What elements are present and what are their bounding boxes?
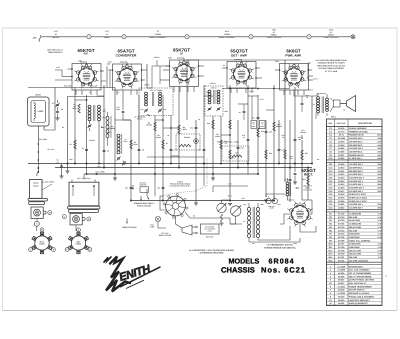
wire short links bbox=[155, 119, 163, 121]
wire bbox=[212, 116, 214, 174]
heater wires bbox=[213, 185, 248, 187]
tab B bbox=[82, 217, 85, 221]
pin dot tube5 bbox=[279, 69, 281, 71]
IF transformer T3 2nd IF bbox=[205, 86, 223, 116]
svg-text:INDICATED WITH AN AC-DC OR: INDICATED WITH AN AC-DC OR bbox=[317, 64, 346, 67]
wire bbox=[189, 36, 249, 38]
svg-text:POWER TRANSFORMER: POWER TRANSFORMER bbox=[349, 285, 373, 288]
wire down from bus4 bbox=[154, 174, 156, 196]
svg-text:20,000: 20,000 bbox=[132, 143, 137, 146]
svg-text:95-506: 95-506 bbox=[338, 275, 345, 278]
svg-text:49-247: 49-247 bbox=[338, 282, 345, 285]
capacitor C18 bbox=[247, 138, 250, 140]
capacitor C22 bbox=[289, 178, 292, 180]
wire link scr bbox=[204, 95, 213, 97]
svg-text:20%: 20% bbox=[377, 147, 381, 150]
svg-text:C23: C23 bbox=[157, 187, 160, 190]
svg-text:22-920: 22-920 bbox=[338, 200, 345, 203]
wire B+ line bbox=[301, 140, 303, 200]
svg-text:0.05 MFD 400 V: 0.05 MFD 400 V bbox=[349, 137, 364, 140]
svg-text:T4: T4 bbox=[313, 103, 315, 106]
ground mid 3 bbox=[228, 203, 232, 205]
svg-text:22-907: 22-907 bbox=[338, 154, 345, 157]
wire top bus to converter bbox=[28, 87, 115, 89]
RF coil core bbox=[93, 105, 95, 121]
svg-text:22-913: 22-913 bbox=[338, 176, 345, 179]
wire bus 3 bbox=[115, 173, 258, 175]
svg-text:22-917: 22-917 bbox=[338, 190, 345, 193]
wire v 295 ext2 bbox=[294, 176, 296, 183]
svg-text:MEG: MEG bbox=[73, 107, 78, 110]
svg-text:BLK-GRN: BLK-GRN bbox=[39, 138, 48, 141]
wire V1 plate bbox=[74, 88, 76, 164]
wire det plate link bbox=[238, 103, 248, 105]
wire 6K6 plate area bbox=[309, 75, 313, 77]
svg-text:PADDER 600 KC: PADDER 600 KC bbox=[349, 134, 365, 137]
junction dots bus 3 bbox=[114, 173, 116, 175]
trimmer C3 bbox=[88, 124, 91, 126]
pin dot tube3 bbox=[169, 65, 171, 67]
padder capacitor C9 bbox=[123, 162, 126, 164]
wire V1 screen bbox=[103, 85, 105, 168]
svg-text:CONV.: CONV. bbox=[39, 243, 45, 246]
wire bus AVC bbox=[55, 167, 312, 169]
svg-text:R.F.: R.F. bbox=[84, 53, 89, 56]
RF coil L3 secondary bbox=[98, 105, 101, 108]
svg-text:0.006 MFD 600 V: 0.006 MFD 600 V bbox=[349, 187, 365, 190]
junction B+ feed bbox=[311, 163, 313, 165]
wire speaker leads bbox=[330, 98, 334, 101]
tube V4 6SQ7GT det amp bbox=[234, 66, 250, 82]
junction bbox=[86, 99, 88, 101]
svg-text:DET · AMP: DET · AMP bbox=[231, 53, 247, 57]
wire converter plate bbox=[146, 64, 148, 88]
wire bbox=[178, 87, 180, 168]
Zenith logo flourish bbox=[104, 257, 111, 262]
wire osc grid bbox=[114, 88, 116, 175]
parts table frame bbox=[327, 119, 383, 306]
capacitor C6 bbox=[103, 149, 106, 151]
trimmer C7 bbox=[117, 157, 120, 159]
tube V2 socket box bbox=[113, 64, 142, 90]
svg-text:22-905: 22-905 bbox=[338, 147, 345, 150]
trimmer bracket B bbox=[70, 213, 82, 225]
capacitor C23 bbox=[162, 186, 165, 188]
svg-text:PHONO: PHONO bbox=[184, 136, 191, 139]
junction det row bbox=[229, 88, 231, 90]
wire rect left bbox=[280, 214, 288, 224]
tube V4 pin leads bbox=[230, 88, 232, 93]
svg-text:63-756: 63-756 bbox=[338, 239, 345, 242]
svg-text:49-248: 49-248 bbox=[338, 289, 345, 292]
svg-text:R13 VOL CONTROL ½ MEG: R13 VOL CONTROL ½ MEG bbox=[217, 140, 240, 143]
wire heater bus bbox=[147, 156, 204, 158]
svg-text:SWITCH: SWITCH bbox=[140, 184, 147, 187]
ground 295 bbox=[293, 181, 297, 183]
transformer T4 output bbox=[317, 97, 320, 99]
svg-text:¼ W: ¼ W bbox=[377, 246, 381, 249]
svg-text:5: 5 bbox=[308, 36, 309, 39]
svg-text:PHONO SOCKET: PHONO SOCKET bbox=[137, 204, 152, 207]
svg-text:FROM: FROM bbox=[224, 33, 230, 36]
resistor R8 bbox=[178, 125, 180, 134]
svg-text:TUNING RANGE 540-1620 KC.: TUNING RANGE 540-1620 KC. bbox=[264, 247, 296, 250]
oscillator coil L2 primary bbox=[106, 116, 109, 120]
wire bbox=[130, 120, 132, 201]
svg-text:500,000 OHM: 500,000 OHM bbox=[349, 253, 361, 256]
svg-text:COMMON RETURN TO POINTS: COMMON RETURN TO POINTS bbox=[317, 62, 345, 65]
wire v1 cap lead bbox=[80, 62, 87, 64]
wire det row bbox=[222, 88, 290, 90]
RF coil L3 primary bbox=[88, 105, 91, 108]
wire dial lamp lead bbox=[158, 222, 166, 228]
capacitor C29 bbox=[294, 172, 297, 174]
capacitor C14 bbox=[195, 126, 198, 128]
svg-text:PADDER 600 KC: PADDER 600 KC bbox=[349, 154, 365, 157]
svg-text:1: 1 bbox=[88, 36, 89, 39]
wire choke top bbox=[287, 178, 289, 182]
oscillator coil L2 secondary bbox=[117, 134, 120, 137]
socket V1 bottom view bbox=[35, 236, 49, 250]
wire bbox=[289, 120, 291, 202]
svg-text:500 OHM: 500 OHM bbox=[349, 229, 358, 232]
arrow test point bbox=[147, 114, 150, 116]
svg-text:R10: R10 bbox=[207, 122, 210, 125]
wire V5 plate to output transformer bbox=[294, 90, 316, 96]
svg-text:6R084: 6R084 bbox=[269, 256, 295, 265]
svg-text:22-770: 22-770 bbox=[338, 130, 345, 133]
wire bbox=[229, 85, 231, 201]
wire bracket to socket bbox=[36, 219, 38, 222]
capacitor C4 bbox=[60, 165, 63, 167]
svg-text:0.05 MFD 200 V: 0.05 MFD 200 V bbox=[349, 147, 364, 150]
svg-text:250 MMF MICA: 250 MMF MICA bbox=[349, 170, 363, 173]
svg-text:10%: 10% bbox=[377, 144, 381, 147]
wire if left stub bbox=[163, 69, 170, 71]
tube V6 6X5GT rect bbox=[292, 206, 309, 223]
svg-text:40 MFD 150 V ELEC: 40 MFD 150 V ELEC bbox=[349, 197, 368, 200]
svg-text:3: 3 bbox=[186, 36, 187, 39]
svg-text:20%: 20% bbox=[377, 163, 381, 166]
wire xtra v2 bbox=[159, 75, 161, 84]
svg-text:22-921: 22-921 bbox=[338, 203, 345, 206]
svg-text:50/60 CYCLES: 50/60 CYCLES bbox=[159, 234, 172, 237]
wire if left bbox=[156, 60, 158, 66]
svg-text:C5: C5 bbox=[82, 147, 84, 150]
wire V1 cathode bbox=[86, 95, 88, 174]
svg-text:63-760: 63-760 bbox=[338, 253, 345, 256]
capacitor C5 bbox=[85, 148, 88, 150]
svg-text:BLK-GRN: BLK-GRN bbox=[64, 84, 73, 87]
svg-text:IN PLASTIC PORTS ONLY: IN PLASTIC PORTS ONLY bbox=[170, 185, 192, 188]
loop antenna L1 bbox=[28, 97, 50, 126]
parts table header bbox=[327, 126, 383, 128]
svg-text:10 MEGOHM: 10 MEGOHM bbox=[349, 243, 361, 246]
capacitor C10 bbox=[122, 110, 125, 112]
capacitor C30 bbox=[243, 110, 246, 112]
svg-text:No. DIAL DRIVE: No. DIAL DRIVE bbox=[42, 181, 56, 184]
wire xtra v bbox=[251, 96, 253, 120]
svg-text:I.F. FREQUENCY 455 KC.: I.F. FREQUENCY 455 KC. bbox=[267, 244, 294, 247]
tube V1 6SK7GT RF bbox=[79, 68, 95, 84]
trimmer screws can B bbox=[72, 185, 74, 187]
svg-text:C8: C8 bbox=[142, 149, 144, 152]
svg-text:LOOP: LOOP bbox=[38, 110, 44, 113]
svg-text:63-749: 63-749 bbox=[338, 216, 345, 219]
junction dots bus 4 bbox=[130, 200, 132, 202]
trimmer bracket A bbox=[31, 207, 43, 219]
wire stub2 bbox=[75, 99, 87, 101]
svg-text:SPEAKER 5¼ ALNICO: SPEAKER 5¼ ALNICO bbox=[349, 292, 370, 295]
speaker LS1 voice coil bbox=[334, 100, 341, 107]
svg-text:¼ W: ¼ W bbox=[377, 229, 381, 232]
ground volume bbox=[220, 222, 224, 224]
volume control R19 bbox=[217, 203, 226, 212]
svg-text:T5: T5 bbox=[243, 220, 245, 223]
capacitor C21 bbox=[294, 138, 297, 140]
svg-text:VACUUM TUBE VOLTMETER: VACUUM TUBE VOLTMETER bbox=[318, 67, 344, 70]
svg-text:1ST I.F. TRANSFORMER: 1ST I.F. TRANSFORMER bbox=[349, 272, 372, 275]
wire switch to line bbox=[176, 216, 183, 228]
wire choke bottom bbox=[288, 196, 291, 200]
wire if left stub2 bbox=[160, 79, 170, 81]
svg-text:20%: 20% bbox=[377, 183, 381, 186]
node pin letter B right bbox=[87, 217, 91, 221]
svg-text:ALL VOLTAGES MEASURED FROM: ALL VOLTAGES MEASURED FROM bbox=[316, 59, 347, 62]
junction lower bus bbox=[86, 173, 88, 175]
svg-text:22-916: 22-916 bbox=[338, 187, 345, 190]
wire link af bbox=[248, 95, 258, 97]
svg-text:20%: 20% bbox=[377, 203, 381, 206]
svg-text:PWR. AMP.: PWR. AMP. bbox=[285, 53, 301, 57]
tube V4 socket box bbox=[227, 62, 256, 89]
svg-text:RECT.: RECT. bbox=[304, 172, 313, 176]
svg-text:0.05 MFD 400 V: 0.05 MFD 400 V bbox=[349, 190, 364, 193]
svg-text:LOOP MTG. BRACKET: LOOP MTG. BRACKET bbox=[349, 299, 371, 302]
wire osc primary leads bbox=[107, 112, 109, 116]
wire heater stubs bbox=[195, 120, 197, 150]
svg-text:2: 2 bbox=[123, 36, 124, 39]
svg-text:1 MEGOHM: 1 MEGOHM bbox=[349, 246, 360, 249]
svg-text:49-251: 49-251 bbox=[338, 302, 345, 305]
svg-text:¼ W: ¼ W bbox=[377, 243, 381, 246]
svg-text:22-911: 22-911 bbox=[338, 170, 345, 173]
svg-text:1 WATT OUTPUT: 1 WATT OUTPUT bbox=[266, 36, 282, 39]
svg-text:TUBE SOCKETS: TUBE SOCKETS bbox=[48, 51, 64, 54]
ground mid 2 bbox=[194, 202, 198, 204]
svg-text:22-904: 22-904 bbox=[338, 144, 345, 147]
svg-text:600: 600 bbox=[272, 28, 275, 31]
svg-text:C16: C16 bbox=[240, 147, 243, 150]
capacitor C15 bbox=[203, 148, 206, 150]
svg-text:49-249: 49-249 bbox=[338, 295, 345, 298]
wire B+ from rectifier bbox=[300, 226, 316, 232]
label external speaker box bbox=[201, 224, 220, 234]
svg-text:0.05 MFD 400 V: 0.05 MFD 400 V bbox=[349, 163, 364, 166]
can A base ribs bbox=[28, 198, 48, 201]
resistor R17 bbox=[273, 122, 275, 131]
resistor R11 bbox=[220, 140, 222, 149]
svg-text:¼ W: ¼ W bbox=[377, 223, 381, 226]
svg-text:63-758: 63-758 bbox=[338, 246, 345, 249]
tube V5 pin leads bbox=[283, 90, 285, 95]
resistor R3 bbox=[130, 140, 132, 149]
wire trans top leads bbox=[317, 93, 319, 97]
wire bbox=[257, 95, 259, 174]
junction bbox=[307, 167, 309, 169]
svg-text:CONVERTER: CONVERTER bbox=[116, 53, 137, 57]
ground bus left bbox=[60, 175, 64, 177]
svg-text:2ND I.F. TRANSFORMER: 2ND I.F. TRANSFORMER bbox=[349, 275, 372, 278]
wire c24 bbox=[301, 96, 303, 103]
node alignment point 5 bbox=[307, 35, 311, 39]
resistor R1 bbox=[78, 104, 80, 113]
svg-text:1370: 1370 bbox=[377, 134, 381, 137]
wire plate V5 bbox=[294, 87, 296, 164]
socket V2 bottom view bbox=[71, 236, 85, 250]
svg-text:C6: C6 bbox=[107, 150, 109, 153]
wire alignment line bbox=[44, 36, 87, 38]
svg-text:R15: R15 bbox=[261, 130, 264, 133]
svg-text:63-751: 63-751 bbox=[338, 223, 345, 226]
wire rect leads bbox=[299, 202, 301, 206]
capacitor C19 bbox=[265, 130, 268, 132]
svg-text:10%: 10% bbox=[377, 166, 381, 169]
tube V5 6K6GT pwr amp bbox=[286, 68, 302, 84]
resistor R16 bbox=[265, 150, 267, 159]
junction dots bus B+ bbox=[74, 163, 76, 165]
wire bbox=[126, 36, 185, 38]
wire bus stub left bbox=[27, 88, 29, 164]
wire v 295 ext bbox=[294, 164, 296, 173]
resistor R10 bbox=[212, 120, 214, 129]
svg-text:¼ W: ¼ W bbox=[377, 216, 381, 219]
svg-text:R7: R7 bbox=[166, 142, 168, 145]
node link circle A bbox=[34, 221, 39, 226]
tab A bbox=[43, 211, 46, 215]
svg-text:20%: 20% bbox=[377, 190, 381, 193]
switch S2 rotary rear view bbox=[166, 196, 186, 216]
wire v2 cap lead bbox=[120, 62, 127, 65]
svg-text:22-71: 22-71 bbox=[339, 134, 345, 137]
arrow below bus 2 bbox=[140, 196, 142, 201]
svg-text:S-13250: S-13250 bbox=[337, 269, 345, 272]
svg-text:C24: C24 bbox=[125, 187, 128, 190]
svg-text:600 KC.: 600 KC. bbox=[53, 36, 60, 39]
can B base ribs bbox=[68, 206, 101, 209]
svg-text:AT 117 V LINE: AT 117 V LINE bbox=[325, 70, 338, 73]
resistor R12 diode load bbox=[229, 120, 231, 129]
tone control R22 bbox=[231, 206, 241, 216]
svg-text:3.3 MEGOHM: 3.3 MEGOHM bbox=[349, 223, 362, 226]
svg-text:22-909: 22-909 bbox=[338, 163, 345, 166]
wire link grid1 bbox=[115, 119, 131, 121]
svg-text:C14: C14 bbox=[190, 127, 193, 130]
svg-text:22-919: 22-919 bbox=[338, 197, 345, 200]
pin dot tube4 bbox=[226, 67, 228, 69]
node alignment point 4 bbox=[249, 35, 253, 39]
svg-text:600KC TO 1620KC.: 600KC TO 1620KC. bbox=[150, 36, 167, 39]
arrow below bus 1 bbox=[132, 185, 134, 190]
svg-text:22-912: 22-912 bbox=[338, 173, 345, 176]
svg-text:S-13251: S-13251 bbox=[337, 285, 345, 288]
ground V1 grid return bbox=[66, 170, 70, 172]
component R13 box bbox=[251, 121, 257, 129]
svg-text:20,000 OHM: 20,000 OHM bbox=[349, 219, 360, 222]
parts table rows bbox=[327, 129, 383, 131]
svg-text:OSC. COIL ASSEMBLY: OSC. COIL ASSEMBLY bbox=[349, 269, 371, 272]
svg-text:CONV.: CONV. bbox=[76, 243, 82, 246]
wire bbox=[220, 116, 222, 164]
svg-text:2 GANG VARIABLE: 2 GANG VARIABLE bbox=[349, 127, 367, 130]
svg-text:0.01 MFD 600 V: 0.01 MFD 600 V bbox=[349, 173, 364, 176]
phono socket J1 dashed box bbox=[176, 134, 200, 150]
junction bbox=[170, 127, 172, 129]
resistor R12b bbox=[229, 150, 231, 159]
wire bbox=[311, 36, 351, 38]
svg-text:KNOB (2) BAKELITE: KNOB (2) BAKELITE bbox=[349, 302, 369, 305]
svg-text:TRIMMER ON GANG: TRIMMER ON GANG bbox=[349, 130, 368, 133]
wire can B to bus bbox=[83, 174, 85, 180]
wire bbox=[138, 95, 140, 164]
wire stub bbox=[97, 95, 105, 97]
capacitor C27 electrolytic bbox=[272, 198, 277, 203]
wire down 3 bbox=[247, 164, 249, 175]
junction bbox=[162, 119, 164, 121]
wire dotted phono link bbox=[163, 158, 207, 196]
svg-text:22-629: 22-629 bbox=[338, 127, 345, 130]
wire bbox=[162, 95, 164, 201]
wire v4 cap lead bbox=[234, 60, 242, 63]
arrow b+ right bbox=[301, 135, 303, 139]
svg-text:1 W: 1 W bbox=[378, 256, 382, 259]
svg-text:20%: 20% bbox=[377, 176, 381, 179]
tube V2 6SA7GT converter bbox=[119, 69, 135, 85]
svg-text:20%: 20% bbox=[377, 173, 381, 176]
svg-text:2 MEG.: 2 MEG. bbox=[229, 157, 235, 160]
capacitor C20 bbox=[278, 148, 281, 150]
svg-text:600KC.: 600KC. bbox=[104, 36, 111, 39]
resistor R18 bbox=[284, 150, 286, 159]
capacitor C13 bbox=[170, 148, 173, 150]
svg-text:0.005 MFD 600 V: 0.005 MFD 600 V bbox=[349, 176, 365, 179]
wire switch leads bbox=[160, 196, 166, 210]
wire bus 4 bbox=[131, 200, 274, 202]
svg-text:1ST I.F. TRANS.: 1ST I.F. TRANS. bbox=[150, 89, 163, 92]
wire transformer leads bbox=[248, 203, 250, 207]
IF transformer T2 1st IF bbox=[139, 88, 173, 116]
svg-text:YEL-GR: YEL-GR bbox=[47, 148, 54, 151]
svg-text:B+: B+ bbox=[123, 160, 125, 163]
wire output secondary bbox=[326, 113, 328, 116]
svg-text:OSC.: OSC. bbox=[123, 140, 128, 143]
transformer T5 power bbox=[247, 207, 250, 211]
tube V3 pin leads bbox=[173, 87, 175, 93]
svg-text:95-505: 95-505 bbox=[338, 272, 345, 275]
svg-text:I.F.: I.F. bbox=[180, 52, 184, 55]
wire intertube 2b bbox=[159, 66, 161, 75]
svg-text:22-914: 22-914 bbox=[338, 180, 345, 183]
wire bus3 extend left bbox=[87, 173, 116, 175]
wire bbox=[237, 120, 239, 168]
resistor R24 bbox=[232, 155, 242, 157]
capacitor C26 electrolytic bbox=[266, 198, 271, 203]
wire bbox=[75, 225, 77, 231]
svg-text:95-507: 95-507 bbox=[338, 279, 345, 282]
wire bbox=[265, 120, 267, 197]
wire bbox=[278, 120, 280, 164]
junction bbox=[203, 163, 205, 165]
